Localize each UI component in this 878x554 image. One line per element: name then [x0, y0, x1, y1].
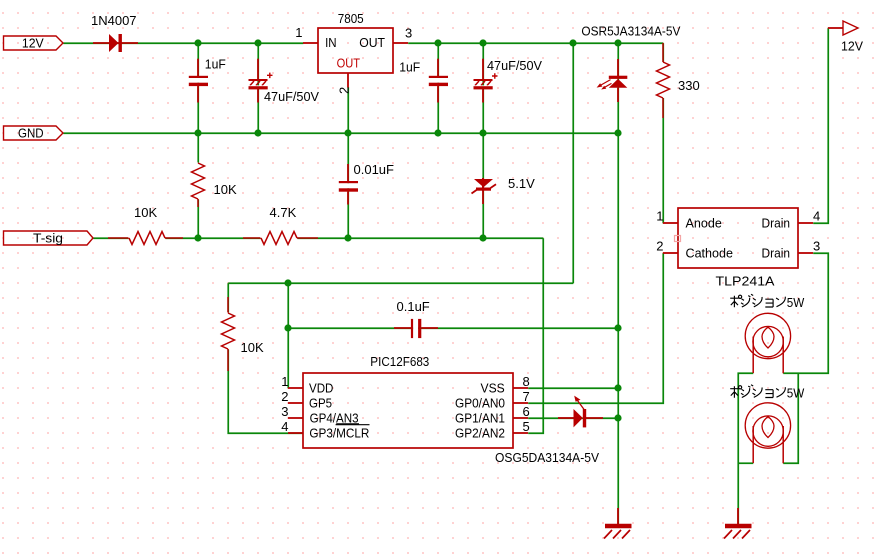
capacitor C1 1uF: [189, 59, 208, 103]
ground symbol (lamps): [724, 508, 752, 539]
svg-text:12V: 12V: [841, 39, 863, 54]
node GND/main vertical: [614, 129, 621, 136]
wire lamp2 left leg branch: [738, 462, 753, 464]
svg-text:GP3/MCLR: GP3/MCLR: [309, 425, 369, 440]
svg-text:2: 2: [656, 239, 663, 254]
svg-text:1N4007: 1N4007: [91, 13, 137, 28]
wire lamp2 right leg riser: [783, 373, 798, 463]
LED D4 OSG5DA3134A-5V: [558, 396, 603, 428]
node 5V/C4: [479, 39, 486, 46]
capacitor C4 47uF/50V electrolytic: [474, 59, 498, 103]
wire VDD branch x=288: [287, 283, 289, 388]
svg-text:Drain: Drain: [762, 246, 791, 261]
node 0.1uF/ground vertical: [614, 324, 621, 331]
svg-text:5W: 5W: [787, 386, 805, 401]
node VDD feeder/288: [284, 279, 291, 286]
capacitor C3 1uF: [429, 59, 448, 103]
svg-text:5: 5: [523, 419, 530, 434]
wire lamp1 left leg to ground rail: [738, 373, 753, 524]
node 12V/C1: [194, 39, 201, 46]
svg-text:1: 1: [656, 209, 663, 224]
artifact small pink square: [675, 236, 681, 242]
wire GP1 LED row y=418: [528, 417, 618, 419]
svg-text:3: 3: [405, 26, 412, 41]
wire 0.1uF row y=328: [288, 327, 618, 329]
svg-text:6: 6: [523, 404, 530, 419]
svg-text:OUT: OUT: [359, 35, 385, 50]
label position-5W lamp1 (katakana): [730, 294, 785, 307]
port 12V (output, top right): [828, 21, 863, 54]
wire GND rail: [63, 132, 618, 134]
resistor R3 10K horizontal (T-sig series): [108, 231, 183, 246]
svg-text:4: 4: [281, 419, 288, 434]
svg-text:10K: 10K: [241, 340, 264, 355]
svg-text:7: 7: [523, 389, 530, 404]
node 5V/LED1: [614, 39, 621, 46]
capacitor C6 0.1uF: [394, 319, 438, 338]
node 12V/C2: [254, 39, 261, 46]
svg-text:GP2/AN2: GP2/AN2: [455, 425, 505, 440]
node GND/C3: [434, 129, 441, 136]
node T-sig/C5: [344, 234, 351, 241]
svg-text:1uF: 1uF: [399, 59, 420, 74]
zener diode D3 5.1V: [472, 178, 497, 204]
node VSS/ground vertical: [614, 384, 621, 391]
svg-text:GP0/AN0: GP0/AN0: [455, 395, 505, 410]
svg-text:VSS: VSS: [481, 380, 506, 395]
svg-text:GND: GND: [18, 126, 44, 141]
wire TLP pin4 to 12V out port: [813, 28, 828, 223]
svg-text:Anode: Anode: [686, 216, 722, 231]
svg-text:5.1V: 5.1V: [508, 176, 535, 191]
LED D2 OSR5JA3134A-5V: [597, 59, 628, 102]
wire 7805 pin2 down x=348: [347, 87, 349, 238]
svg-text:47uF/50V: 47uF/50V: [487, 58, 542, 73]
node GND/C1: [194, 129, 201, 136]
wire GP0 row to TLP cathode: [528, 253, 663, 403]
node T-sig/R divider: [194, 234, 201, 241]
svg-text:VDD: VDD: [309, 380, 333, 395]
svg-text:1uF: 1uF: [205, 57, 226, 72]
svg-text:GP5: GP5: [309, 395, 332, 410]
svg-text:5W: 5W: [787, 295, 805, 310]
svg-text:10K: 10K: [134, 205, 157, 220]
svg-text:3: 3: [281, 404, 288, 419]
svg-text:47uF/50V: 47uF/50V: [264, 89, 319, 104]
port GND (input, left): [4, 126, 64, 141]
label position-5W lamp2 (katakana): [730, 385, 785, 398]
resistor R5 10K (MCLR pullup): [221, 297, 236, 371]
wire 5V rail top right: [408, 42, 663, 44]
svg-text:T-sig: T-sig: [33, 231, 63, 246]
wire T-sig row: [93, 237, 543, 239]
svg-text:TLP241A: TLP241A: [716, 274, 775, 289]
wire MCLR pullup branch x=228: [228, 283, 303, 433]
capacitor C2 47uF/50V electrolytic: [249, 59, 273, 103]
wire node C1 vertical x=198: [197, 43, 199, 238]
svg-text:Drain: Drain: [762, 216, 791, 231]
resistor R4 4.7K: [243, 231, 318, 246]
IC U2 PIC12F683: [281, 373, 529, 448]
node 0.1uF/288: [284, 324, 291, 331]
svg-text:GP1/AN1: GP1/AN1: [455, 410, 505, 425]
node GND/C4: [479, 129, 486, 136]
svg-text:OSR5JA3134A-5V: OSR5JA3134A-5V: [581, 23, 680, 38]
wire node C2 vertical x=258: [257, 43, 259, 133]
lamp LP2 (position 5W): [745, 403, 790, 463]
wire 330 branch down to TLP pin1: [662, 43, 664, 223]
diode D1 1N4007: [93, 34, 138, 52]
svg-text:4: 4: [813, 209, 820, 224]
svg-text:PIC12F683: PIC12F683: [370, 354, 429, 369]
wire node C3 vertical x=438: [437, 43, 439, 133]
svg-text:IN: IN: [325, 35, 337, 50]
regulator U1 7805: [295, 25, 412, 94]
wire main ground vertical x=618: [617, 43, 619, 524]
wire 5V feed down x=573: [572, 43, 574, 283]
node 5V/feed: [569, 39, 576, 46]
svg-text:7805: 7805: [338, 11, 364, 26]
svg-text:Cathode: Cathode: [686, 246, 734, 261]
lamp LP1 (position 5W): [745, 313, 790, 373]
wire T-sig down x=543 to PIC pin5: [528, 238, 543, 433]
svg-text:0.1uF: 0.1uF: [397, 299, 430, 314]
wire 12V rail top left: [63, 42, 303, 44]
port 12V (input, left): [4, 36, 64, 51]
svg-text:4.7K: 4.7K: [270, 205, 297, 220]
wire node C4/zener vertical x=483: [482, 43, 484, 238]
ground symbol (main): [604, 508, 632, 539]
wire TLP pin3 down to lamps: [783, 253, 828, 373]
wire VDD feeder row y=283: [228, 282, 573, 284]
resistor R2 10K vertical (divider): [191, 163, 206, 208]
svg-text:1: 1: [295, 25, 302, 40]
svg-text:3: 3: [813, 239, 820, 254]
node GND/C2: [254, 129, 261, 136]
svg-text:GP4/AN3: GP4/AN3: [310, 410, 359, 425]
port T-sig (input, left): [4, 231, 94, 246]
svg-text:8: 8: [523, 374, 530, 389]
svg-text:2: 2: [337, 87, 352, 94]
node 5V/C3: [434, 39, 441, 46]
resistor R1 330: [656, 43, 671, 118]
svg-text:0.01uF: 0.01uF: [354, 162, 395, 177]
svg-text:1: 1: [281, 374, 288, 389]
capacitor C5 0.01uF: [339, 164, 358, 205]
WIRES (green): [63, 28, 828, 524]
node GND/7805: [344, 129, 351, 136]
svg-text:OSG5DA3134A-5V: OSG5DA3134A-5V: [495, 450, 599, 465]
node LED2/ground vertical: [614, 414, 621, 421]
wire VSS row y=388: [528, 387, 618, 389]
node T-sig/zener: [479, 234, 486, 241]
svg-text:10K: 10K: [214, 182, 237, 197]
optocoupler U3 TLP241A: [656, 208, 820, 268]
svg-text:330: 330: [678, 78, 700, 93]
svg-text:12V: 12V: [22, 36, 44, 51]
svg-text:2: 2: [281, 389, 288, 404]
svg-text:OUT: OUT: [337, 56, 360, 71]
